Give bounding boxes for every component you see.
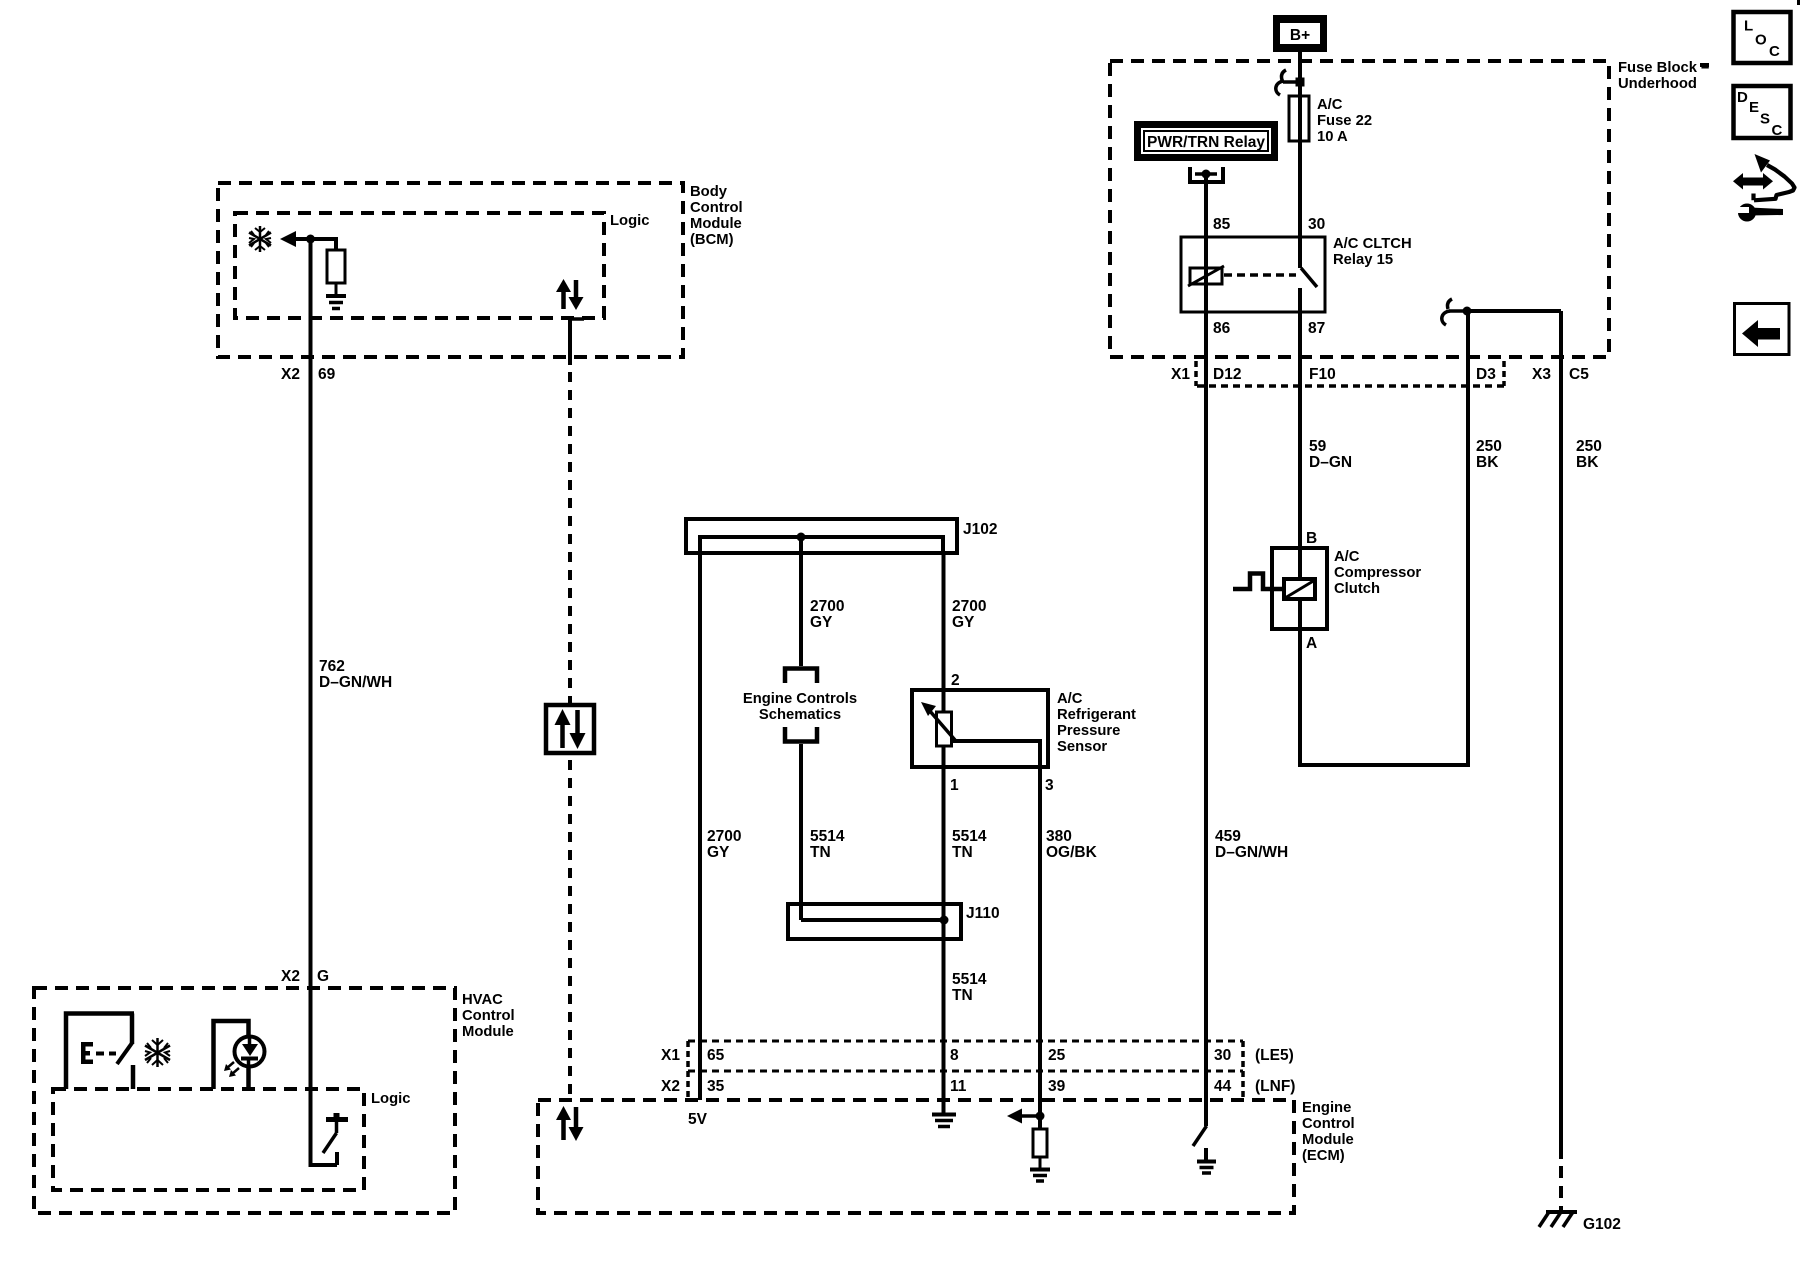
wire G102 dashed tail [1559, 1166, 1563, 1211]
svg-text:(ECM): (ECM) [1302, 1148, 1345, 1164]
diagnostic info icon (double arrow, outline, wrench) [1733, 154, 1795, 222]
PWR/TRN Relay label box [1134, 121, 1278, 161]
Engine Control Module dashed box [538, 1100, 1294, 1213]
svg-text:Clutch: Clutch [1334, 581, 1380, 597]
svg-text:86: 86 [1213, 320, 1231, 337]
label A/C CLTCH Relay 15 [1333, 236, 1412, 268]
svg-text:11: 11 [950, 1078, 967, 1095]
svg-text:30: 30 [1308, 216, 1325, 233]
pin X2 69 labels [281, 366, 336, 383]
stray dash left of LOC box [1700, 63, 1709, 67]
label A/C Compressor Clutch [1334, 549, 1421, 597]
svg-text:A/C: A/C [1317, 97, 1343, 113]
svg-text:TN: TN [952, 987, 973, 1004]
svg-text:Compressor: Compressor [1334, 565, 1421, 581]
svg-text:87: 87 [1308, 320, 1325, 337]
serial data arrows in BCM [556, 279, 584, 310]
svg-text:Refrigerant: Refrigerant [1057, 707, 1136, 723]
svg-text:5514: 5514 [810, 828, 845, 845]
svg-text:S: S [1760, 111, 1770, 128]
connector row labels under fuse block [1171, 361, 1589, 386]
label 250 BK left [1476, 438, 1502, 471]
svg-text:Logic: Logic [610, 213, 649, 229]
junction node X2-69 wire [306, 235, 315, 244]
wire resistor to ground [335, 283, 338, 295]
svg-text:A: A [1306, 635, 1317, 652]
svg-text:X2: X2 [281, 366, 300, 383]
svg-text:Fuse 22: Fuse 22 [1317, 113, 1372, 129]
svg-text:2700: 2700 [707, 828, 741, 845]
Body Control Module dashed box [218, 183, 683, 357]
svg-text:5514: 5514 [952, 828, 987, 845]
wire resistor to ground [1039, 1157, 1042, 1168]
wire 762 BCM to HVAC [309, 239, 313, 1165]
svg-text:D–GN/WH: D–GN/WH [319, 674, 392, 691]
svg-text:Logic: Logic [371, 1091, 410, 1107]
snowflake icon (A/C request) [249, 226, 271, 252]
switch to ground in ECM [1193, 1126, 1207, 1160]
B+ power label box [1273, 15, 1327, 52]
svg-text:X1: X1 [661, 1047, 680, 1064]
DESC button box [1734, 86, 1791, 139]
wire serial data dashed symbol to ECM [568, 760, 572, 1100]
svg-text:2700: 2700 [810, 598, 844, 615]
pin X2 G labels [281, 968, 329, 985]
svg-text:GY: GY [810, 614, 833, 631]
svg-text:O: O [1755, 32, 1767, 49]
splice pack J102 [686, 519, 957, 553]
svg-text:TN: TN [952, 844, 973, 861]
svg-text:65: 65 [707, 1047, 725, 1064]
wire clutch pin A to D3 [1300, 311, 1468, 765]
svg-text:HVAC: HVAC [462, 992, 503, 1008]
svg-text:F10: F10 [1309, 366, 1336, 383]
svg-text:Control: Control [690, 200, 743, 216]
serial data two-way symbol box [546, 705, 594, 753]
svg-text:44: 44 [1214, 1078, 1232, 1095]
wire 459 fuse block to ECM pin 30/44 [1204, 357, 1208, 1126]
LOC button box [1734, 12, 1791, 63]
arrow into snowflake [280, 231, 296, 247]
ECM connector row X1 [661, 1041, 1294, 1071]
signal tap arrow pin 25/39 [1007, 1109, 1045, 1124]
label 2700 GY left [810, 598, 844, 631]
switch E marking [81, 1042, 116, 1064]
svg-text:C5: C5 [1569, 366, 1589, 383]
label HVAC Control Module [462, 992, 515, 1040]
svg-text:A/C CLTCH: A/C CLTCH [1333, 236, 1412, 252]
wire sensor pin1 to J110 to ECM ground [942, 767, 946, 1113]
svg-text:250: 250 [1576, 438, 1602, 455]
svg-text:380: 380 [1046, 828, 1072, 845]
svg-text:B: B [1306, 530, 1317, 547]
svg-text:G102: G102 [1583, 1216, 1621, 1233]
label 5514 TN col2 [810, 828, 845, 861]
label Engine Control Module (ECM) [1302, 1100, 1355, 1164]
serial data arrows in ECM [556, 1106, 584, 1141]
wire J102 to sensor pin 2 [942, 553, 946, 712]
relay coil K15 [1188, 266, 1224, 286]
label 762 D-GN/WH [319, 658, 392, 691]
clutch coil [1284, 579, 1315, 599]
svg-text:GY: GY [952, 614, 975, 631]
svg-text:(BCM): (BCM) [690, 232, 734, 248]
wire F10 to clutch pin B [1298, 357, 1302, 579]
svg-text:69: 69 [318, 366, 336, 383]
svg-text:25: 25 [1048, 1047, 1066, 1064]
svg-text:D–GN: D–GN [1309, 454, 1352, 471]
svg-text:X2: X2 [661, 1078, 680, 1095]
svg-text:J102: J102 [963, 521, 997, 538]
LED light arrows [224, 1062, 239, 1077]
label 5514 TN col3 [952, 828, 987, 861]
svg-text:85: 85 [1213, 216, 1231, 233]
sensor wire pin2 through element [942, 712, 946, 767]
svg-text:Sensor: Sensor [1057, 739, 1107, 755]
svg-text:X3: X3 [1532, 366, 1551, 383]
label 380 OG/BK [1046, 828, 1098, 861]
wire arrow to resistor corner [293, 239, 336, 250]
svg-text:762: 762 [319, 658, 345, 675]
svg-text:30: 30 [1214, 1047, 1231, 1064]
label Body Control Module (BCM) [690, 184, 743, 248]
A/C compressor clutch box [1272, 548, 1327, 629]
label A/C Refrigerant Pressure Sensor [1057, 691, 1136, 755]
wire J102 to schematics reference [799, 537, 803, 666]
ground under resistor [1030, 1170, 1050, 1182]
label 2700 GY col1 [707, 828, 741, 861]
label A/C Fuse 22 10 A [1317, 97, 1372, 145]
svg-text:X1: X1 [1171, 366, 1190, 383]
A/C switch symbol [66, 1014, 134, 1090]
svg-text:BK: BK [1576, 454, 1599, 471]
A/C refrigerant pressure sensor box [912, 690, 1048, 767]
wire J102 to ECM 5V [698, 553, 702, 1100]
svg-text:E: E [1749, 99, 1759, 116]
svg-text:5514: 5514 [952, 971, 987, 988]
ground in BCM [326, 296, 346, 309]
svg-text:PWR/TRN Relay: PWR/TRN Relay [1147, 134, 1265, 151]
svg-text:(LE5): (LE5) [1255, 1047, 1294, 1064]
ground pin 8/11 in ECM [932, 1115, 956, 1127]
svg-text:GY: GY [707, 844, 730, 861]
svg-text:8: 8 [950, 1047, 959, 1064]
wire schematics ref to J110 [799, 744, 803, 920]
svg-text:3: 3 [1045, 777, 1054, 794]
relay switch blade [1301, 268, 1317, 287]
HVAC logic dashed box [53, 1089, 364, 1190]
BCM logic dashed box [235, 213, 604, 318]
svg-text:Fuse Block –: Fuse Block – [1618, 60, 1709, 76]
svg-text:Module: Module [462, 1024, 514, 1040]
wire switch to pin 87 [1298, 288, 1302, 357]
label 459 D-GN/WH [1215, 828, 1288, 861]
sensor internal wire to pin 3 [953, 741, 1040, 767]
svg-text:L: L [1744, 18, 1753, 35]
wire serial data dashed BCM to symbol [568, 372, 572, 703]
svg-text:D–GN/WH: D–GN/WH [1215, 844, 1288, 861]
Fuse Block Underhood dashed box [1110, 61, 1609, 357]
label 5514 TN below J110 [952, 971, 987, 1004]
A/C CLTCH relay box [1181, 237, 1325, 312]
label 59 D-GN [1309, 438, 1352, 471]
svg-text:OG/BK: OG/BK [1046, 844, 1098, 861]
svg-text:D12: D12 [1213, 366, 1241, 383]
label 250 BK right [1576, 438, 1602, 471]
wire X3 C5 to G102 solid [1559, 311, 1563, 1159]
svg-text:Pressure: Pressure [1057, 723, 1120, 739]
mechanical actuator step symbol [1233, 574, 1284, 590]
label Fuse Block - Underhood [1618, 60, 1709, 92]
svg-text:Control: Control [1302, 1116, 1355, 1132]
svg-text:Engine: Engine [1302, 1100, 1351, 1116]
wire sensor pin3 to ECM [1038, 767, 1042, 1130]
fuse F22 [1289, 96, 1309, 141]
relay actuation dashed link [1224, 273, 1296, 277]
svg-text:BK: BK [1476, 454, 1499, 471]
inline connector at D3 node [1442, 299, 1472, 325]
svg-text:TN: TN [810, 844, 831, 861]
snowflake icon on switch [145, 1038, 170, 1067]
svg-text:2: 2 [951, 672, 960, 689]
svg-text:39: 39 [1048, 1078, 1066, 1095]
svg-text:59: 59 [1309, 438, 1327, 455]
back arrow button box [1735, 304, 1790, 355]
svg-text:10 A: 10 A [1317, 129, 1348, 145]
splice pack J110 [788, 904, 961, 939]
svg-text:C: C [1772, 122, 1783, 139]
svg-text:2700: 2700 [952, 598, 986, 615]
svg-text:J110: J110 [966, 905, 1000, 922]
wire B+ to fuse to relay pin 30 [1298, 52, 1302, 268]
svg-text:459: 459 [1215, 828, 1241, 845]
inline connector at fuse top [1276, 70, 1305, 95]
wire pin 85 through coil to pin 86 [1204, 237, 1208, 357]
wire D3 node to X3 C5 drop [1467, 309, 1561, 313]
resistor in BCM [327, 250, 345, 283]
svg-text:Underhood: Underhood [1618, 76, 1697, 92]
svg-text:Engine Controls: Engine Controls [743, 691, 857, 707]
svg-text:5V: 5V [688, 1111, 708, 1128]
svg-text:C: C [1769, 43, 1780, 60]
HVAC Control Module dashed box [34, 988, 455, 1213]
svg-text:1: 1 [950, 777, 959, 794]
sensor variable element [921, 702, 955, 746]
resistor pin 39 to ground [1033, 1129, 1047, 1157]
ground G102 [1539, 1212, 1577, 1227]
svg-text:(LNF): (LNF) [1255, 1078, 1295, 1095]
svg-text:Control: Control [462, 1008, 515, 1024]
svg-text:Module: Module [1302, 1132, 1354, 1148]
ground under ECM switch [1197, 1162, 1216, 1174]
svg-text:A/C: A/C [1057, 691, 1083, 707]
svg-text:Schematics: Schematics [759, 707, 841, 723]
svg-text:250: 250 [1476, 438, 1502, 455]
svg-text:B+: B+ [1290, 27, 1310, 44]
svg-text:35: 35 [707, 1078, 725, 1095]
wire coil feed to pin 85 [1204, 176, 1208, 237]
A/C indicator LED [214, 1021, 265, 1089]
ECM connector row X2 [661, 1071, 1295, 1100]
wire serial data solid stub below BCM arrows [570, 317, 584, 365]
svg-text:D3: D3 [1476, 366, 1496, 383]
off-page reference Engine Controls Schematics [743, 669, 857, 742]
svg-text:D: D [1737, 89, 1748, 106]
corner mark [1797, 0, 1800, 5]
svg-text:Relay 15: Relay 15 [1333, 252, 1393, 268]
svg-text:Module: Module [690, 216, 742, 232]
relay coil feed bracket [1190, 167, 1223, 182]
svg-text:X2: X2 [281, 968, 300, 985]
logic output switch [323, 1113, 348, 1165]
svg-text:Body: Body [690, 184, 728, 200]
svg-text:G: G [317, 968, 329, 985]
label 2700 GY right [952, 598, 986, 631]
svg-text:A/C: A/C [1334, 549, 1360, 565]
wire bottom jog to switch [309, 1163, 338, 1167]
